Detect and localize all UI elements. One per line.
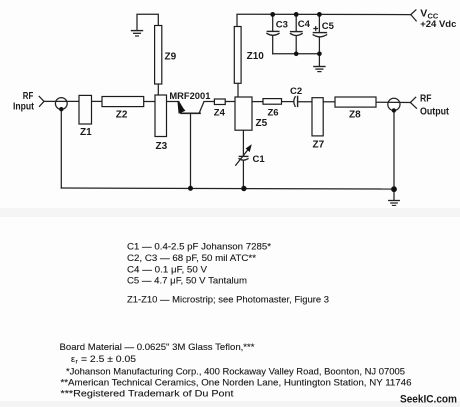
svg-text:Z5: Z5 (256, 118, 268, 129)
svg-text:V: V (420, 7, 427, 19)
svg-text:Z6: Z6 (268, 108, 279, 119)
svg-text:MRF2001: MRF2001 (169, 91, 211, 102)
svg-text:Z9: Z9 (165, 52, 177, 63)
svg-text:Z4: Z4 (214, 108, 226, 119)
svg-text:Z3: Z3 (156, 141, 168, 152)
svg-text:Z8: Z8 (349, 109, 361, 120)
svg-text:C2, C3 — 68 pF, 50 mil ATC**: C2, C3 — 68 pF, 50 mil ATC** (127, 253, 256, 263)
svg-text:Z1: Z1 (80, 127, 92, 138)
svg-text:Z1-Z10 — Microstrip; see Photo: Z1-Z10 — Microstrip; see Photomaster, Fi… (127, 294, 329, 304)
svg-text:C2: C2 (290, 86, 302, 97)
svg-text:***Registered Trademark of Du: ***Registered Trademark of Du Pont (61, 388, 235, 398)
svg-text:Board Material — 0.0625" 3M Gl: Board Material — 0.0625" 3M Glass Teflon… (60, 342, 256, 352)
svg-text:+24 Vdc: +24 Vdc (420, 19, 456, 30)
svg-text:Z10: Z10 (247, 51, 265, 62)
svg-text:*Johanson Manufacturing Corp.,: *Johanson Manufacturing Corp., 400 Rocka… (66, 366, 405, 376)
svg-text:C4 — 0.1 μF, 50 V: C4 — 0.1 μF, 50 V (127, 264, 208, 274)
svg-text:**American Technical Ceramics,: **American Technical Ceramics, One Norde… (61, 377, 412, 387)
svg-text:Input: Input (13, 101, 35, 112)
svg-text:C4: C4 (298, 19, 311, 30)
svg-text:Output: Output (420, 106, 450, 117)
svg-text:C1: C1 (253, 154, 266, 165)
svg-text:C1 — 0.4-2.5 pF Johanson 7285*: C1 — 0.4-2.5 pF Johanson 7285* (127, 241, 271, 251)
svg-text:r: r (76, 358, 79, 365)
svg-text:ε: ε (71, 354, 75, 364)
svg-text:SeekIC.com: SeekIC.com (400, 394, 457, 406)
svg-text:C5: C5 (322, 21, 335, 32)
svg-text:RF: RF (23, 91, 34, 102)
svg-text:RF: RF (420, 94, 432, 105)
svg-text:C5 — 4.7 μF, 50 V Tantalum: C5 — 4.7 μF, 50 V Tantalum (127, 276, 247, 286)
svg-text:Z7: Z7 (313, 140, 325, 151)
svg-text:= 2.5 ± 0.05: = 2.5 ± 0.05 (81, 354, 136, 364)
svg-text:Z2: Z2 (116, 110, 128, 121)
svg-text:C3: C3 (276, 19, 288, 30)
